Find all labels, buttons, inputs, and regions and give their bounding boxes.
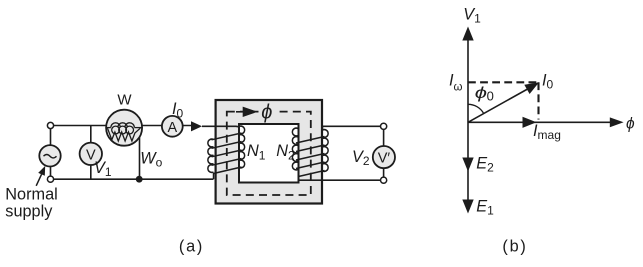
svg-text:supply: supply bbox=[5, 203, 53, 221]
transformer core outer bbox=[216, 100, 322, 204]
svg-text:E1: E1 bbox=[476, 197, 494, 217]
voltmeter V1 bbox=[80, 143, 102, 165]
angle phi0 arc bbox=[468, 104, 484, 113]
arrowhead phi bbox=[610, 117, 624, 127]
current direction arrow bbox=[191, 121, 202, 131]
terminal bottom-right bbox=[381, 177, 387, 183]
wire source vertical bbox=[50, 129, 52, 176]
phasor I0 bbox=[468, 89, 529, 123]
flux arrow bbox=[236, 111, 243, 113]
phasor E1 line end bbox=[467, 199, 469, 202]
terminal bottom-left bbox=[47, 176, 53, 182]
flux path dashed bbox=[227, 112, 311, 195]
ac source bbox=[39, 145, 60, 166]
svg-text:Wo: Wo bbox=[140, 150, 162, 170]
junction dot bbox=[136, 176, 143, 183]
terminal top-right bbox=[381, 123, 387, 129]
wire top into core bbox=[202, 125, 239, 128]
label phi0 bbox=[475, 85, 487, 102]
terminal top-left bbox=[47, 122, 53, 128]
voltmeter V' bbox=[373, 146, 395, 168]
wattmeter voltage resistor zigzag bbox=[108, 128, 141, 141]
leader arrow to source bbox=[36, 174, 41, 186]
svg-text:ϕ: ϕ bbox=[475, 85, 487, 102]
wire bottom bus bbox=[54, 178, 214, 180]
svg-text:Imag: Imag bbox=[533, 122, 561, 142]
wire top bus bbox=[54, 125, 191, 127]
svg-text:A: A bbox=[167, 120, 177, 136]
transformer core window bbox=[239, 124, 299, 183]
phasor E2 arrowhead bbox=[462, 158, 473, 172]
phasor E1 arrowhead bbox=[462, 200, 473, 214]
voltmeter V1 wire bbox=[90, 126, 92, 180]
svg-text:V′: V′ bbox=[378, 151, 391, 167]
ammeter A bbox=[162, 116, 183, 137]
secondary winding N2 bbox=[292, 126, 328, 180]
svg-text:V1: V1 bbox=[463, 6, 481, 26]
svg-text:V2: V2 bbox=[352, 148, 370, 168]
wattmeter current coil bbox=[107, 127, 111, 129]
svg-text:V1: V1 bbox=[94, 159, 112, 179]
svg-text:Normal: Normal bbox=[5, 186, 57, 204]
primary winding N1 bbox=[208, 126, 245, 179]
arrowhead V1 bbox=[462, 27, 473, 41]
mask under phi label bbox=[259, 103, 278, 123]
svg-text:I0: I0 bbox=[542, 72, 554, 92]
dashed projection horizontal bbox=[468, 81, 539, 83]
voltmeter V2 wire bbox=[383, 129, 385, 177]
wire secondary bottom bbox=[299, 179, 384, 181]
svg-text:I0: I0 bbox=[172, 100, 184, 120]
wire W0 pressure lead bbox=[139, 137, 141, 179]
phasor axis phi horizontal bbox=[468, 121, 610, 123]
wattmeter W bbox=[106, 110, 142, 146]
phasor axis V1 vertical line bbox=[467, 40, 469, 200]
phasor Imag arrowhead bbox=[523, 117, 537, 128]
svg-text:W: W bbox=[117, 92, 132, 109]
svg-text:E2: E2 bbox=[476, 154, 494, 174]
wire secondary top bbox=[323, 125, 384, 127]
svg-text:(b): (b) bbox=[502, 238, 527, 256]
svg-text:ϕ: ϕ bbox=[261, 102, 272, 124]
svg-text:0: 0 bbox=[487, 89, 494, 104]
svg-text:Iω: Iω bbox=[449, 72, 463, 94]
dashed projection vertical bbox=[537, 82, 539, 119]
svg-text:ϕ: ϕ bbox=[626, 116, 635, 133]
svg-text:(a): (a) bbox=[179, 238, 204, 256]
